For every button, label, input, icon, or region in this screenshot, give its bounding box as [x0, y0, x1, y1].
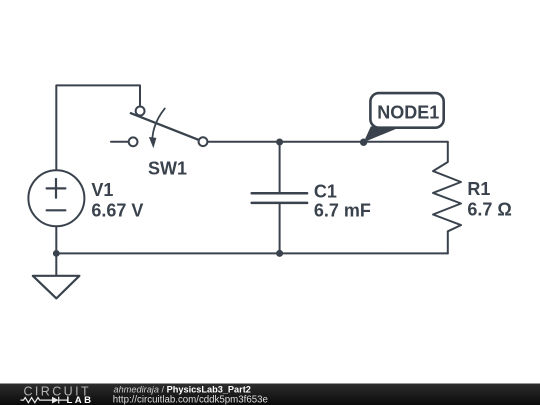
wire bottom rail — [56, 252, 448, 254]
ground — [33, 276, 80, 299]
svg-text:http://circuitlab.com/cddk5pm3: http://circuitlab.com/cddk5pm3f653e — [113, 394, 268, 405]
svg-text:NODE1: NODE1 — [377, 103, 439, 123]
capacitor C1 — [252, 193, 307, 203]
svg-text:V1: V1 — [91, 180, 113, 200]
junction dot capacitor bottom — [276, 250, 283, 257]
svg-text:R1: R1 — [467, 179, 490, 199]
svg-text:6.7 mF: 6.7 mF — [314, 201, 371, 221]
junction dot at V1/ground — [53, 250, 60, 257]
wire ground lead — [55, 253, 57, 275]
switch SW1 — [129, 107, 208, 149]
wire switch left throw stub — [111, 141, 129, 143]
wire top rail from switch to right corner — [207, 141, 447, 143]
svg-text:ahmediraja / PhysicsLab3_Part2: ahmediraja / PhysicsLab3_Part2 — [114, 385, 251, 395]
resistor R1 — [433, 142, 461, 253]
svg-text:SW1: SW1 — [148, 159, 187, 179]
wire capacitor bottom lead — [279, 204, 281, 254]
svg-text:6.7 Ω: 6.7 Ω — [467, 200, 511, 220]
svg-text:C1: C1 — [314, 181, 337, 201]
wire V1 bottom to ground node — [55, 226, 57, 253]
junction dot capacitor top — [276, 139, 283, 146]
svg-text:6.67 V: 6.67 V — [91, 201, 143, 221]
voltage source V1 — [28, 170, 84, 226]
svg-text:LAB: LAB — [67, 395, 94, 405]
node NODE1 callout — [360, 93, 444, 146]
wire capacitor top lead — [279, 142, 281, 192]
logo resistor-diode line — [21, 397, 68, 404]
wire from V1 top to switch pivot — [56, 85, 140, 170]
logo diode triangle — [52, 397, 59, 404]
